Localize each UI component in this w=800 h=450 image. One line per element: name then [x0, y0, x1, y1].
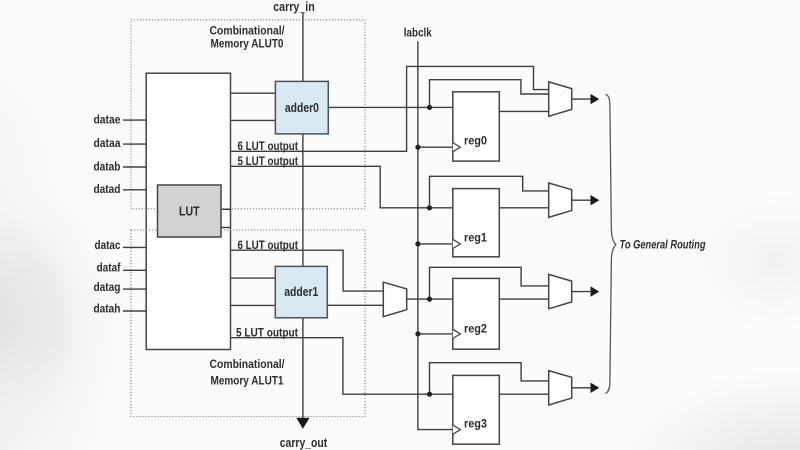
svg-text:datac: datac — [95, 238, 121, 252]
wire adder mux output to reg2 D — [407, 298, 453, 300]
wire 6 LUT output lower to adder mux — [231, 250, 384, 291]
arrowhead carry_out — [296, 418, 309, 429]
wire reg2 Q to mux2 — [499, 298, 548, 300]
svg-text:Combinational/: Combinational/ — [210, 357, 285, 371]
wire labclk to reg2 clock — [418, 333, 453, 335]
reg0 box — [453, 92, 500, 161]
dashed box Combinational/Memory ALUT1 — [131, 230, 365, 417]
adder1 box — [275, 266, 327, 317]
arrowhead mux2 output — [591, 286, 600, 296]
wire mux2 output — [572, 291, 591, 293]
svg-text:labclk: labclk — [404, 26, 432, 40]
svg-text:datae: datae — [94, 112, 121, 126]
junction dot reg3 D — [427, 392, 432, 397]
mux3 — [549, 371, 572, 405]
reg1 box — [453, 189, 500, 257]
arrowhead mux0 output — [591, 94, 600, 104]
arrowhead mux1 output — [591, 195, 600, 205]
mux1 — [549, 183, 572, 217]
svg-text:LUT: LUT — [179, 204, 200, 218]
wire carry chain adder0 to adder1 — [302, 134, 304, 267]
wire datab input stub — [123, 166, 146, 168]
adder mux — [383, 282, 406, 316]
wire 5 LUT output upper to reg1 D — [231, 166, 453, 208]
svg-text:dataa: dataa — [94, 136, 121, 150]
wire reg2 bypass to mux2 — [430, 267, 549, 299]
wire reg1 Q to mux1 — [499, 207, 548, 209]
wire dataf input stub — [123, 269, 146, 271]
svg-text:carry_out: carry_out — [280, 436, 328, 450]
wire mux1 output — [572, 199, 591, 201]
wire carry_out from adder1 — [302, 318, 304, 420]
svg-text:dataf: dataf — [97, 261, 122, 275]
svg-text:datah: datah — [94, 302, 121, 316]
svg-text:Memory ALUT0: Memory ALUT0 — [211, 36, 284, 50]
wire block to adder1 lower — [231, 304, 276, 306]
adder0 box — [275, 81, 328, 133]
reg0 clock chevron — [453, 143, 461, 152]
svg-text:reg1: reg1 — [464, 230, 487, 244]
svg-text:To General Routing: To General Routing — [620, 237, 706, 251]
wire reg3 Q to mux3 — [499, 393, 548, 395]
junction dot reg2 D — [427, 297, 432, 302]
svg-text:Memory ALUT1: Memory ALUT1 — [211, 373, 284, 387]
svg-text:6 LUT output: 6 LUT output — [238, 238, 299, 252]
svg-text:adder1: adder1 — [284, 285, 318, 299]
wire datae input stub — [123, 119, 146, 121]
wire block to adder1 upper — [231, 277, 276, 279]
wire adder1 output to adder mux — [327, 304, 383, 306]
arrowhead mux3 output — [591, 383, 600, 393]
wire reg3 bypass to mux3 — [430, 363, 549, 395]
wire datah input stub — [123, 310, 146, 312]
svg-text:adder0: adder0 — [285, 101, 319, 115]
wire LUT output stub upper — [221, 208, 231, 210]
junction dot labclk reg0 — [415, 145, 420, 150]
wire datag input stub — [123, 288, 146, 290]
LUT input block (combinational input rectangle) — [146, 73, 230, 349]
mux0 — [549, 82, 572, 116]
junction dot labclk reg1 — [415, 241, 420, 246]
reg3 box — [453, 375, 500, 444]
wire labclk vertical and reg3 clock — [418, 41, 453, 429]
svg-text:reg3: reg3 — [464, 416, 487, 430]
wire labclk to reg0 clock — [418, 146, 453, 148]
reg1 clock chevron — [453, 239, 461, 248]
svg-text:6 LUT output: 6 LUT output — [238, 139, 299, 153]
reg2 box — [453, 278, 500, 349]
wire block to adder0 lower — [231, 119, 276, 121]
wire adder0 bypass to mux0 — [430, 80, 549, 108]
svg-text:reg0: reg0 — [464, 133, 487, 147]
junction dot adder0 out / reg0 D — [427, 105, 432, 110]
wire 6 LUT output upper to mux0 — [231, 66, 549, 151]
dashed box Combinational/Memory ALUT0 — [131, 20, 365, 209]
wire 5 LUT output lower to reg3 D — [231, 338, 453, 395]
wire reg1 bypass to mux1 — [430, 176, 549, 208]
wire mux3 output — [572, 387, 591, 389]
wire labclk to reg1 clock — [418, 243, 453, 245]
svg-text:datag: datag — [94, 280, 121, 294]
reg3 clock chevron — [453, 425, 461, 434]
wire block to adder0 upper — [231, 92, 276, 94]
svg-text:5 LUT output: 5 LUT output — [238, 154, 299, 168]
wire carry_in into adder0 — [302, 13, 304, 82]
wire mux0 output — [572, 98, 591, 100]
mux2 — [549, 274, 572, 308]
svg-text:5 LUT output: 5 LUT output — [236, 325, 298, 339]
curly brace To General Routing — [605, 94, 616, 394]
wire adder0 output to reg0 D — [328, 106, 453, 108]
junction dot reg1 D — [427, 205, 432, 210]
wire LUT output stub lower — [221, 227, 231, 229]
wire dataa input stub — [123, 143, 146, 145]
LUT box — [158, 185, 222, 237]
wire reg0 Q to mux0 — [499, 110, 548, 112]
wire datad input stub — [123, 189, 146, 191]
svg-text:datab: datab — [94, 160, 121, 174]
svg-text:datad: datad — [94, 182, 121, 196]
junction dot labclk reg2 — [415, 331, 420, 336]
svg-text:reg2: reg2 — [464, 321, 487, 335]
svg-text:carry_in: carry_in — [273, 0, 315, 14]
wire datac input stub — [123, 246, 146, 248]
reg2 clock chevron — [453, 329, 461, 338]
